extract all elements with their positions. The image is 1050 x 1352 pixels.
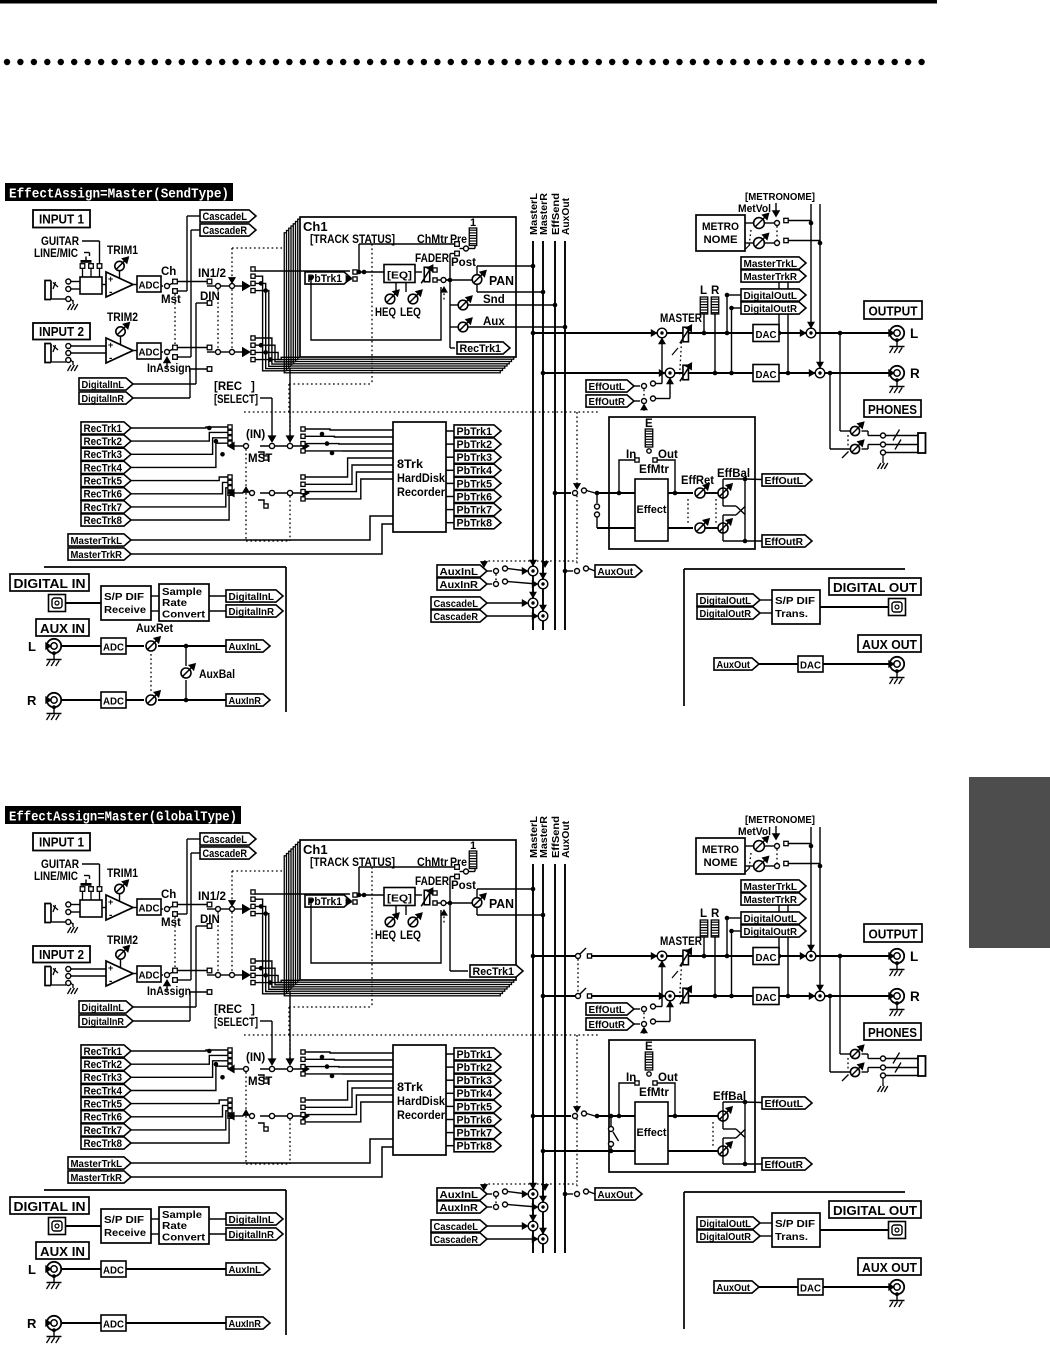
- svg-text:PbTrk7: PbTrk7: [457, 504, 493, 516]
- svg-text:DigitalInR: DigitalInR: [229, 1229, 275, 1241]
- svg-text:IN1/2: IN1/2: [198, 268, 226, 280]
- svg-text:DAC: DAC: [800, 660, 821, 672]
- svg-text:Mst: Mst: [161, 917, 181, 929]
- svg-text:AuxOut: AuxOut: [598, 566, 634, 578]
- svg-text:IN1/2: IN1/2: [198, 891, 226, 903]
- svg-text:[SELECT]: [SELECT]: [214, 1017, 258, 1029]
- svg-text:S/P DIF: S/P DIF: [775, 1218, 816, 1230]
- svg-text:DigitalOutL: DigitalOutL: [700, 595, 752, 607]
- svg-text:HardDisk: HardDisk: [397, 473, 446, 485]
- svg-text:GUITAR: GUITAR: [41, 859, 80, 871]
- svg-text:DIGITAL IN: DIGITAL IN: [14, 576, 86, 591]
- svg-text:RecTrk6: RecTrk6: [84, 489, 123, 501]
- svg-text:PHONES: PHONES: [868, 402, 917, 417]
- svg-text:+: +: [108, 963, 113, 973]
- svg-text:AUX IN: AUX IN: [40, 1244, 85, 1259]
- svg-text:Effect: Effect: [637, 504, 667, 516]
- svg-text:1: 1: [470, 840, 476, 852]
- svg-text:RecTrk2: RecTrk2: [84, 1059, 123, 1071]
- svg-text:METRO: METRO: [702, 221, 739, 233]
- svg-text:EffOutL: EffOutL: [589, 381, 626, 393]
- svg-text:[METRONOME]: [METRONOME]: [745, 191, 815, 203]
- svg-text:MasterTrkR: MasterTrkR: [71, 1172, 123, 1184]
- svg-text:PAN: PAN: [489, 274, 514, 288]
- svg-text:AuxInL: AuxInL: [440, 1189, 479, 1201]
- svg-text:Receive: Receive: [104, 604, 146, 616]
- svg-text:PbTrk2: PbTrk2: [457, 1062, 493, 1074]
- svg-text:DigitalOutR: DigitalOutR: [744, 303, 798, 315]
- svg-text:AuxInR: AuxInR: [440, 1202, 479, 1214]
- svg-text:DigitalInL: DigitalInL: [82, 1002, 125, 1014]
- svg-text:FADER: FADER: [415, 253, 450, 265]
- svg-text:8Trk: 8Trk: [397, 1082, 424, 1094]
- svg-text:ADC: ADC: [103, 642, 124, 654]
- svg-text:DigitalOutR: DigitalOutR: [700, 1231, 752, 1243]
- svg-text:Ch1: Ch1: [303, 219, 328, 234]
- svg-text:PbTrk4: PbTrk4: [457, 465, 493, 477]
- svg-text:RecTrk2: RecTrk2: [84, 436, 123, 448]
- svg-text:RecTrk3: RecTrk3: [84, 1072, 123, 1084]
- svg-text:Mst: Mst: [161, 294, 181, 306]
- svg-text:MasterTrkL: MasterTrkL: [71, 1158, 123, 1170]
- svg-text:MasterTrkR: MasterTrkR: [71, 549, 123, 561]
- svg-text:EffOutL: EffOutL: [765, 475, 804, 487]
- svg-text:R: R: [910, 989, 920, 1004]
- svg-text:L: L: [700, 285, 707, 297]
- svg-text:E: E: [645, 1041, 653, 1053]
- svg-text:DIGITAL OUT: DIGITAL OUT: [833, 1203, 917, 1218]
- svg-text:ADC: ADC: [103, 696, 124, 708]
- svg-text:NOME: NOME: [704, 234, 738, 246]
- svg-text:TRIM1: TRIM1: [107, 245, 139, 257]
- svg-text:DigitalInR: DigitalInR: [82, 1016, 125, 1028]
- svg-text:PbTrk2: PbTrk2: [457, 439, 493, 451]
- svg-text:AuxRet: AuxRet: [136, 623, 173, 635]
- svg-text:CascadeR: CascadeR: [203, 225, 248, 237]
- svg-text:ADC: ADC: [103, 1319, 124, 1331]
- svg-text:MetVol: MetVol: [738, 203, 771, 215]
- svg-text:INPUT 2: INPUT 2: [39, 948, 84, 962]
- svg-text:EfMtr: EfMtr: [639, 1087, 670, 1099]
- svg-text:Out: Out: [658, 1072, 678, 1084]
- svg-text:INPUT 1: INPUT 1: [39, 836, 84, 850]
- svg-text:ADC: ADC: [139, 970, 160, 982]
- svg-text:PbTrk1: PbTrk1: [457, 426, 493, 438]
- svg-text:RecTrk7: RecTrk7: [84, 502, 123, 514]
- svg-text:MasterTrkR: MasterTrkR: [744, 894, 798, 906]
- svg-text:AUX IN: AUX IN: [40, 621, 85, 636]
- svg-text:L: L: [28, 639, 36, 654]
- svg-text:-: -: [109, 910, 112, 921]
- svg-text:LINE/MIC: LINE/MIC: [34, 871, 78, 883]
- svg-text:Ch: Ch: [161, 889, 176, 901]
- svg-text:PbTrk6: PbTrk6: [457, 1114, 493, 1126]
- svg-text:DigitalOutL: DigitalOutL: [700, 1218, 752, 1230]
- svg-text:[EQ]: [EQ]: [387, 893, 412, 905]
- svg-text:DAC: DAC: [756, 329, 777, 341]
- svg-text:DigitalOutR: DigitalOutR: [700, 608, 752, 620]
- svg-text:[SELECT]: [SELECT]: [214, 394, 258, 406]
- svg-text:[REC: [REC: [214, 1004, 242, 1016]
- svg-text:GUITAR: GUITAR: [41, 236, 80, 248]
- svg-text:InAssign: InAssign: [147, 363, 191, 375]
- svg-text:HEQ: HEQ: [375, 930, 396, 942]
- svg-text:DigitalOutR: DigitalOutR: [744, 926, 798, 938]
- svg-text:EffOutL: EffOutL: [589, 1004, 626, 1016]
- svg-text:Rate: Rate: [162, 1220, 187, 1232]
- svg-text:DigitalOutL: DigitalOutL: [744, 290, 798, 302]
- svg-text:DigitalOutL: DigitalOutL: [744, 913, 798, 925]
- svg-text:CascadeR: CascadeR: [203, 848, 248, 860]
- svg-text:S/P DIF: S/P DIF: [104, 1214, 145, 1226]
- svg-text:RecTrk3: RecTrk3: [84, 449, 123, 461]
- svg-text:[REC: [REC: [214, 381, 242, 393]
- svg-text:R: R: [27, 1316, 37, 1331]
- svg-text:Rate: Rate: [162, 597, 187, 609]
- svg-text:(IN): (IN): [246, 429, 265, 441]
- svg-text:Effect: Effect: [637, 1127, 667, 1139]
- svg-text:EffOutR: EffOutR: [589, 396, 626, 408]
- svg-text:NOME: NOME: [704, 857, 738, 869]
- svg-text:+: +: [108, 897, 113, 907]
- svg-text:DAC: DAC: [756, 369, 777, 381]
- svg-text:PAN: PAN: [489, 897, 514, 911]
- svg-text:MasterR: MasterR: [539, 815, 550, 858]
- svg-text:+: +: [108, 274, 113, 284]
- svg-text:E: E: [645, 418, 653, 430]
- svg-text:ADC: ADC: [139, 347, 160, 359]
- svg-text:AuxOut: AuxOut: [717, 1282, 751, 1294]
- svg-text:L: L: [910, 326, 918, 341]
- svg-text:-: -: [109, 976, 112, 987]
- svg-text:CascadeL: CascadeL: [434, 598, 479, 610]
- svg-text:EffRet: EffRet: [681, 475, 714, 487]
- svg-text:AuxOut: AuxOut: [598, 1189, 634, 1201]
- svg-text:AuxInR: AuxInR: [440, 579, 479, 591]
- svg-text:Trans.: Trans.: [775, 608, 808, 620]
- svg-text:MasterTrkR: MasterTrkR: [744, 271, 798, 283]
- svg-text:S/P DIF: S/P DIF: [775, 595, 816, 607]
- svg-text:Snd: Snd: [483, 294, 505, 306]
- svg-text:-: -: [109, 353, 112, 364]
- svg-text:PbTrk8: PbTrk8: [457, 1141, 493, 1153]
- svg-text:CascadeL: CascadeL: [203, 211, 248, 223]
- svg-text:DAC: DAC: [756, 992, 777, 1004]
- svg-text:R: R: [711, 285, 720, 297]
- svg-text:LINE/MIC: LINE/MIC: [34, 248, 78, 260]
- svg-text:CascadeL: CascadeL: [434, 1221, 479, 1233]
- svg-text:PbTrk3: PbTrk3: [457, 1075, 493, 1087]
- svg-text:S/P DIF: S/P DIF: [104, 591, 145, 603]
- svg-text:R: R: [27, 693, 37, 708]
- svg-text:DigitalInL: DigitalInL: [229, 1214, 275, 1226]
- svg-text:AuxOut: AuxOut: [561, 820, 572, 858]
- svg-text:MasterTrkL: MasterTrkL: [71, 535, 123, 547]
- svg-text:MASTER: MASTER: [660, 313, 703, 325]
- svg-text:L: L: [700, 908, 707, 920]
- svg-text:Recorder: Recorder: [397, 487, 445, 499]
- svg-text:[METRONOME]: [METRONOME]: [745, 814, 815, 826]
- svg-text:PbTrk3: PbTrk3: [457, 452, 493, 464]
- svg-text:EffOutR: EffOutR: [765, 1159, 804, 1171]
- svg-text:RecTrk5: RecTrk5: [84, 1098, 123, 1110]
- svg-text:AuxInL: AuxInL: [229, 641, 262, 653]
- svg-text:Aux: Aux: [483, 316, 505, 328]
- svg-text:HardDisk: HardDisk: [397, 1096, 446, 1108]
- svg-text:Ch1: Ch1: [303, 842, 328, 857]
- svg-text:-: -: [109, 287, 112, 298]
- svg-text:INPUT 2: INPUT 2: [39, 325, 84, 339]
- svg-text:DigitalInL: DigitalInL: [229, 591, 275, 603]
- svg-text:RecTrk1: RecTrk1: [84, 423, 123, 435]
- svg-text:DIGITAL OUT: DIGITAL OUT: [833, 580, 917, 595]
- svg-text:RecTrk8: RecTrk8: [84, 515, 123, 527]
- svg-text:AuxOut: AuxOut: [561, 197, 572, 235]
- svg-text:]: ]: [251, 381, 255, 393]
- svg-text:FADER: FADER: [415, 876, 450, 888]
- svg-text:DIN: DIN: [200, 291, 220, 303]
- svg-text:LEQ: LEQ: [400, 307, 421, 319]
- svg-text:R: R: [711, 908, 720, 920]
- svg-text:PbTrk5: PbTrk5: [457, 1101, 493, 1113]
- svg-text:Ch: Ch: [161, 266, 176, 278]
- svg-text:MasterTrkL: MasterTrkL: [744, 258, 798, 270]
- svg-text:RecTrk4: RecTrk4: [84, 1085, 123, 1097]
- svg-text:EfMtr: EfMtr: [639, 464, 670, 476]
- svg-text:AuxBal: AuxBal: [199, 669, 235, 681]
- svg-text:PbTrk8: PbTrk8: [457, 518, 493, 530]
- svg-text:[EQ]: [EQ]: [387, 270, 412, 282]
- svg-text:ADC: ADC: [103, 1265, 124, 1277]
- svg-text:AuxInR: AuxInR: [229, 1318, 262, 1330]
- svg-text:EffOutR: EffOutR: [765, 536, 804, 548]
- svg-text:EffOutR: EffOutR: [589, 1019, 626, 1031]
- svg-text:AuxInL: AuxInL: [229, 1264, 262, 1276]
- svg-text:CascadeR: CascadeR: [434, 611, 479, 623]
- svg-text:L: L: [28, 1262, 36, 1277]
- svg-text:RecTrk6: RecTrk6: [84, 1112, 123, 1124]
- svg-text:PbTrk7: PbTrk7: [457, 1127, 493, 1139]
- svg-text:]: ]: [251, 1004, 255, 1016]
- svg-text:RecTrk4: RecTrk4: [84, 462, 123, 474]
- svg-text:PHONES: PHONES: [868, 1025, 917, 1040]
- svg-text:CascadeR: CascadeR: [434, 1234, 479, 1246]
- svg-text:OUTPUT: OUTPUT: [869, 304, 918, 319]
- svg-text:AuxInR: AuxInR: [229, 695, 262, 707]
- svg-text:(IN): (IN): [246, 1052, 265, 1064]
- svg-text:RecTrk1: RecTrk1: [460, 343, 502, 355]
- svg-text:TRIM2: TRIM2: [107, 935, 138, 947]
- svg-text:Out: Out: [658, 449, 678, 461]
- svg-text:AUX OUT: AUX OUT: [862, 1260, 917, 1275]
- svg-text:TRIM2: TRIM2: [107, 312, 138, 324]
- svg-text:DIN: DIN: [200, 914, 220, 926]
- svg-text:AuxOut: AuxOut: [717, 659, 751, 671]
- svg-text:MASTER: MASTER: [660, 936, 703, 948]
- svg-text:HEQ: HEQ: [375, 307, 396, 319]
- svg-text:RecTrk5: RecTrk5: [84, 475, 123, 487]
- svg-text:Convert: Convert: [162, 1232, 206, 1244]
- svg-text:1: 1: [470, 217, 476, 229]
- svg-text:AUX OUT: AUX OUT: [862, 637, 917, 652]
- svg-text:ADC: ADC: [139, 903, 160, 915]
- svg-text:Convert: Convert: [162, 609, 206, 621]
- svg-text:OUTPUT: OUTPUT: [869, 927, 918, 942]
- svg-text:DigitalInR: DigitalInR: [82, 393, 125, 405]
- svg-text:CascadeL: CascadeL: [203, 834, 248, 846]
- svg-text:PbTrk6: PbTrk6: [457, 491, 493, 503]
- svg-text:MetVol: MetVol: [738, 826, 771, 838]
- svg-text:Trans.: Trans.: [775, 1231, 808, 1243]
- svg-text:TRIM1: TRIM1: [107, 868, 139, 880]
- svg-text:RecTrk7: RecTrk7: [84, 1125, 123, 1137]
- svg-text:Receive: Receive: [104, 1227, 146, 1239]
- svg-text:Post: Post: [451, 880, 476, 892]
- svg-text:R: R: [910, 366, 920, 381]
- svg-text:DIGITAL IN: DIGITAL IN: [14, 1199, 86, 1214]
- svg-text:EffOutL: EffOutL: [765, 1098, 804, 1110]
- svg-text:AuxInL: AuxInL: [440, 566, 479, 578]
- svg-text:EffectAssign=Master(SendType): EffectAssign=Master(SendType): [9, 188, 229, 203]
- svg-text:InAssign: InAssign: [147, 986, 191, 998]
- svg-text:METRO: METRO: [702, 844, 739, 856]
- svg-text:EffBal: EffBal: [713, 1091, 746, 1103]
- svg-text:MasterR: MasterR: [539, 192, 550, 235]
- svg-text:DigitalInR: DigitalInR: [229, 606, 275, 618]
- svg-text:DAC: DAC: [800, 1283, 821, 1295]
- svg-text:PbTrk1: PbTrk1: [457, 1049, 493, 1061]
- svg-text:+: +: [108, 340, 113, 350]
- svg-text:ADC: ADC: [139, 280, 160, 292]
- svg-text:PbTrk5: PbTrk5: [457, 478, 493, 490]
- svg-text:RecTrk1: RecTrk1: [84, 1046, 123, 1058]
- svg-text:INPUT 1: INPUT 1: [39, 213, 84, 227]
- svg-text:RecTrk1: RecTrk1: [473, 966, 515, 978]
- svg-text:LEQ: LEQ: [400, 930, 421, 942]
- svg-text:8Trk: 8Trk: [397, 459, 424, 471]
- svg-text:MasterTrkL: MasterTrkL: [744, 881, 798, 893]
- svg-text:RecTrk8: RecTrk8: [84, 1138, 123, 1150]
- svg-text:EffectAssign=Master(GlobalType: EffectAssign=Master(GlobalType): [9, 811, 237, 826]
- svg-text:PbTrk4: PbTrk4: [457, 1088, 493, 1100]
- svg-text:Recorder: Recorder: [397, 1110, 445, 1122]
- svg-text:DigitalInL: DigitalInL: [82, 379, 125, 391]
- svg-text:DAC: DAC: [756, 952, 777, 964]
- svg-text:L: L: [910, 949, 918, 964]
- svg-text:Post: Post: [451, 257, 476, 269]
